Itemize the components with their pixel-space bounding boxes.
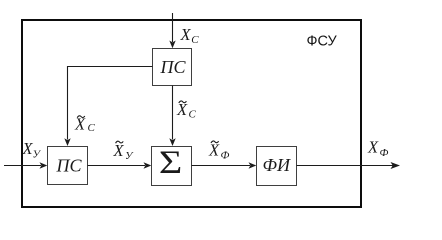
label Xc~ (left feedback) (74, 115, 96, 134)
svg-text:C: C (191, 34, 199, 46)
svg-text:C: C (189, 109, 197, 121)
svg-text:X: X (208, 141, 220, 160)
outer box FSU boundary (22, 20, 361, 207)
block U2: PS (left converter) (48, 147, 88, 185)
label Xc (180, 25, 200, 46)
block U3: Sigma summator (152, 147, 192, 186)
label Xf~ (208, 141, 230, 162)
wire: feedback PS1 left then down to PS2 (68, 67, 153, 140)
block U1: PS (top converter) (153, 49, 192, 86)
wire: FI to output Xf (297, 165, 394, 167)
wire: Xy input from left (4, 165, 41, 167)
block U4: FI pulse shaper (257, 147, 297, 186)
svg-text:Ф: Ф (380, 147, 389, 159)
wire: PS1 down to Sigma (172, 86, 174, 140)
wire: Xc input from top (172, 13, 174, 42)
label Xc~ (middle) (176, 100, 197, 121)
svg-text:X: X (176, 100, 188, 119)
svg-text:Σ: Σ (159, 144, 182, 181)
label Xy~ (113, 141, 135, 162)
label Xf output (367, 138, 389, 160)
svg-text:C: C (88, 122, 96, 134)
svg-text:ПС: ПС (160, 57, 187, 77)
svg-text:X: X (113, 141, 125, 160)
svg-text:ФСУ: ФСУ (307, 34, 338, 50)
svg-text:ФИ: ФИ (263, 155, 291, 175)
svg-text:ПС: ПС (56, 156, 83, 176)
svg-text:X: X (74, 115, 86, 134)
svg-text:X: X (367, 138, 379, 157)
svg-text:X: X (180, 25, 192, 44)
wire: Sigma to FI (192, 165, 251, 167)
wire: PS2 to Sigma (88, 165, 146, 167)
svg-text:Ф: Ф (221, 150, 230, 162)
label Xy (22, 139, 42, 161)
